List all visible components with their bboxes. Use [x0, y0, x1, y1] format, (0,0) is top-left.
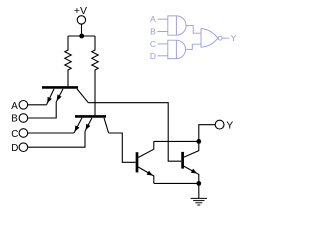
- node output junction: [196, 139, 201, 144]
- wire Q3 collector to output node: [154, 140, 199, 142]
- wire input D to Q2 emitter 2: [28, 131, 85, 147]
- wire Q1 collector to Q4 base: [88, 103, 181, 162]
- logic diagram wire B: [158, 31, 168, 33]
- wire power rail: [68, 35, 95, 37]
- logic diagram wire AND2 to NOR: [186, 44, 202, 49]
- node power rail junction: [79, 34, 84, 39]
- node ground junction: [196, 181, 201, 186]
- wire +V terminal to rail: [81, 24, 83, 36]
- logic diagram AND gate 1 (inputs A,B): [168, 16, 186, 35]
- logic diagram output wire Y: [222, 37, 229, 39]
- svg-text:D: D: [11, 143, 18, 154]
- transistor Q1 (multi-emitter input transistor): [42, 87, 88, 104]
- input terminal B: [11, 114, 27, 125]
- svg-text:D: D: [150, 51, 156, 61]
- svg-text:Y: Y: [226, 120, 233, 132]
- svg-text:B: B: [11, 114, 18, 125]
- svg-text:C: C: [11, 129, 18, 140]
- ground: [191, 198, 207, 205]
- wire input B to Q1 emitter 2: [28, 102, 56, 118]
- logic diagram NOR gate: [201, 29, 222, 48]
- transistor Q2 (multi-emitter input transistor): [74, 116, 109, 133]
- svg-text:A: A: [11, 101, 18, 112]
- wire input A to Q1 emitter 1: [28, 104, 47, 106]
- wire Q2 collector to Q3 base: [109, 133, 136, 162]
- logic diagram wire AND1 to NOR: [186, 26, 201, 34]
- input terminal C: [11, 129, 27, 141]
- svg-text:B: B: [150, 26, 156, 36]
- svg-text:+V: +V: [74, 5, 87, 17]
- wire Q3 emitter to ground node: [154, 182, 199, 184]
- power terminal +V: [74, 5, 87, 24]
- output terminal Y: [215, 120, 233, 132]
- logic diagram wire C: [158, 43, 168, 45]
- resistor R1: [65, 36, 71, 86]
- transistor Q4 (output pull-down): [183, 141, 199, 183]
- logic diagram wire D: [158, 55, 168, 57]
- logic diagram wire A: [158, 18, 168, 20]
- wire output node to Y terminal: [199, 125, 215, 142]
- svg-text:C: C: [150, 39, 156, 49]
- wire input C to Q2 emitter 1: [28, 132, 74, 134]
- svg-text:Y: Y: [231, 33, 237, 43]
- input terminal A: [11, 101, 27, 113]
- input terminal D: [11, 143, 27, 154]
- svg-text:A: A: [150, 14, 156, 24]
- transistor Q3 (output pull-down): [137, 141, 154, 183]
- resistor R2: [92, 36, 98, 115]
- logic diagram AND gate 2 (inputs C,D): [168, 40, 186, 58]
- wire ground node to ground: [198, 183, 200, 198]
